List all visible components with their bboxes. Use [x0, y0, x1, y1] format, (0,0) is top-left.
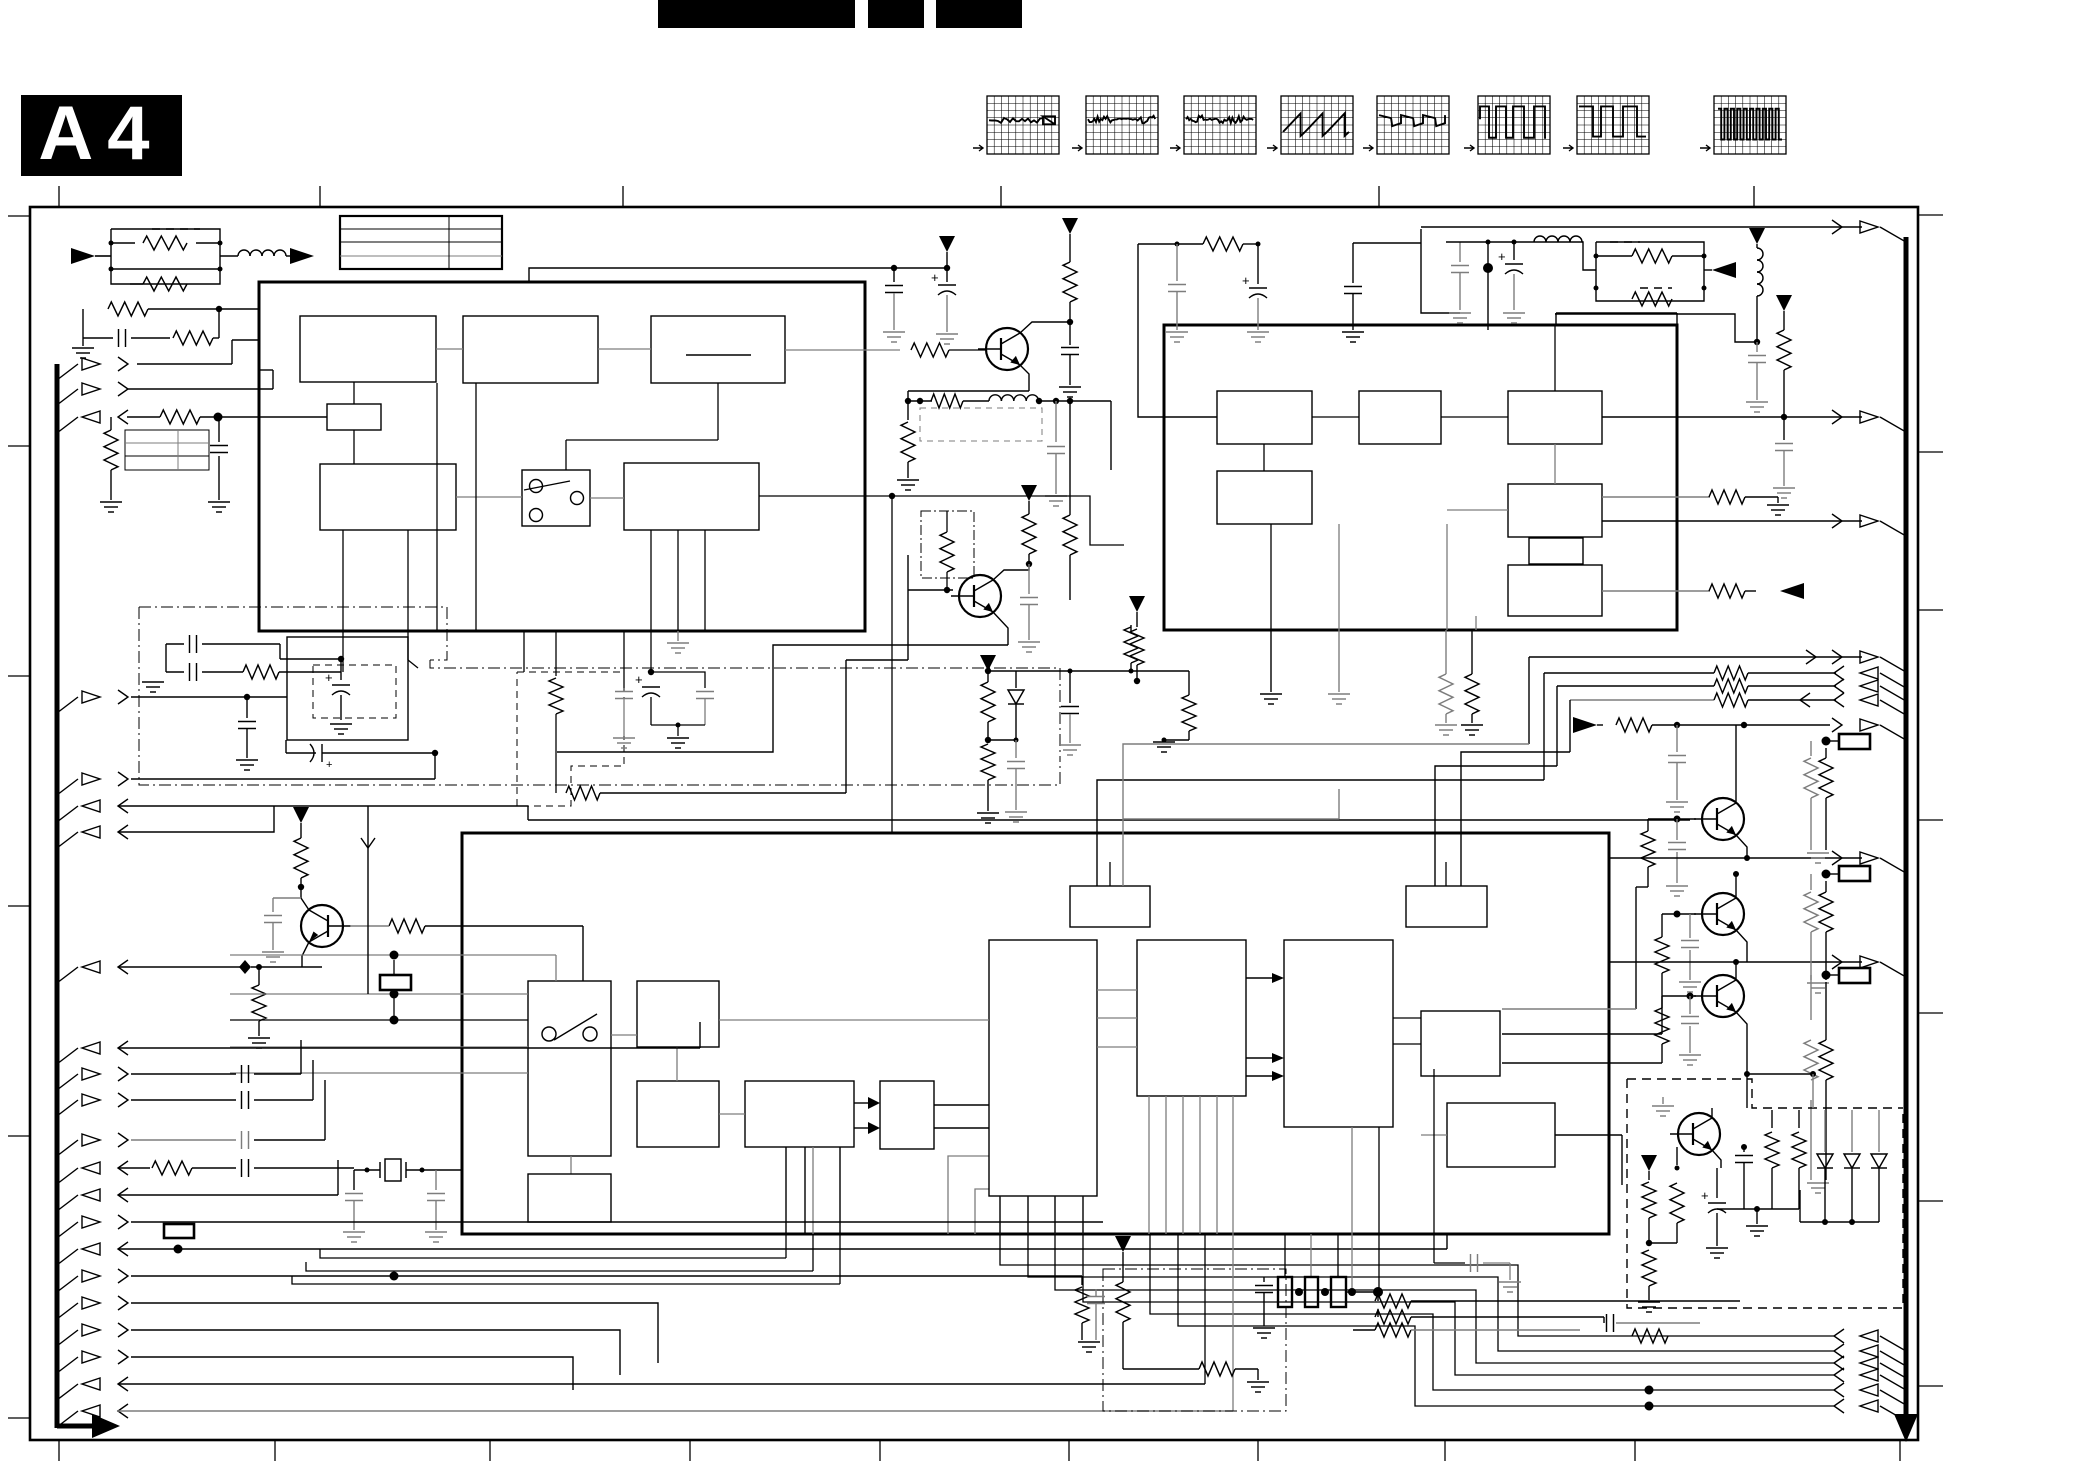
resistor R32 [555, 631, 557, 676]
U1 inner block 4 [320, 464, 456, 530]
resistor R43 [1081, 1276, 1083, 1285]
resistor R52 [1602, 496, 1710, 498]
oscilloscope waveform thumbnail 7 [1577, 96, 1649, 154]
cap C36 [623, 631, 625, 688]
ground G7 [897, 479, 919, 481]
wire 1488 down [1487, 242, 1489, 268]
transistor Q1 [986, 328, 1028, 370]
dashed reservoir box [313, 665, 396, 718]
resistor R16 [1130, 625, 1132, 631]
junction under Q7 [1754, 1206, 1760, 1212]
U3 inner block b36 [1284, 940, 1393, 1127]
ground G61 [1666, 801, 1688, 803]
diode D2 [1851, 1110, 1853, 1152]
U3 pin drop 1233 [1232, 1234, 1234, 1411]
wire conn K1 [393, 960, 395, 975]
row 1411 wire [118, 1410, 1233, 1412]
dash-dot box bottom [1103, 1269, 1286, 1411]
oscilloscope waveform thumbnail 1 [987, 96, 1059, 154]
row 1222 wire [131, 1221, 1103, 1223]
ground G16 [248, 1037, 270, 1039]
diode D4 [1015, 671, 1017, 688]
ground G32 [1638, 1301, 1660, 1303]
row 1168 wire [118, 1167, 150, 1169]
ground G36 [1342, 331, 1364, 333]
wire U1 to Q1 base [785, 349, 900, 351]
connector K2 [1839, 734, 1870, 749]
cap CR3 [1087, 1296, 1105, 1298]
cap C35 electrolytic horiz [286, 752, 316, 754]
U3 left pin rows [230, 954, 556, 956]
U3 top sub-block 2 [1406, 886, 1487, 927]
cap CB1 [1433, 1069, 1435, 1263]
Q5 emitter wire [1736, 930, 1747, 962]
bundle verticals [1543, 673, 1545, 780]
cap C16 electrolytic [1257, 244, 1259, 284]
transistor Q6 [1702, 975, 1744, 1017]
ground G33 [1706, 1247, 1728, 1249]
right signal bus bar [1904, 237, 1909, 1426]
diode common wire [1800, 1221, 1879, 1223]
wire Q3 to U3 [389, 919, 425, 933]
cap C54 [1783, 417, 1785, 440]
cap CR1 [1263, 1277, 1265, 1282]
row 1330 wire [131, 1330, 620, 1375]
ground G31 [1652, 1105, 1674, 1107]
diode D1 [1824, 1110, 1826, 1152]
row 858 wire [1609, 857, 1862, 859]
wire x908 down [907, 555, 909, 660]
cap CR2 [1606, 1314, 1608, 1332]
resistor R31 [243, 665, 279, 679]
Q2 collector [993, 564, 1029, 580]
wire 286 up [285, 740, 287, 753]
Q6 collector wire [1735, 962, 1737, 980]
U3 inner block b33 [745, 1081, 854, 1147]
ground G10 [677, 631, 679, 641]
svg-text:+: + [931, 270, 939, 285]
resistor R73 [1676, 1147, 1678, 1165]
U2 internal wires [1312, 416, 1359, 418]
res stack [1375, 1294, 1411, 1308]
row 962 wire [1609, 961, 1862, 963]
bundle row 673 [1544, 672, 1714, 674]
U3 b35 bottom pins [1148, 1096, 1150, 1234]
wire top rail [529, 268, 947, 283]
row 417 right wire [1602, 416, 1862, 418]
oscilloscope waveform thumbnail 8 [1714, 96, 1786, 154]
border reference tick marks [58, 186, 60, 206]
row 1276 wire [131, 1275, 1082, 1277]
wire x368 down [367, 806, 369, 994]
svg-text:+: + [325, 670, 333, 685]
resistor R19 [1471, 630, 1473, 674]
Q5 base bias chain [1655, 937, 1669, 973]
ground G24 [1503, 312, 1525, 314]
top right rail [1446, 241, 1583, 243]
crystal wires [406, 1169, 462, 1171]
left edge bus breakout arrows [57, 364, 78, 380]
svg-text:A4: A4 [38, 91, 163, 176]
ground G30 [1807, 1182, 1829, 1184]
ground G26 [1773, 487, 1795, 489]
U3 b33 output arrows [854, 1102, 868, 1104]
IC block U2 outline [1164, 325, 1677, 630]
U3 inner block b35 [1137, 940, 1246, 1096]
wire x524-556 [523, 631, 525, 672]
vertical drop x343 [342, 631, 344, 672]
ground G39 [1059, 744, 1081, 746]
ground G25 [1746, 401, 1768, 403]
ground G27 [1767, 504, 1789, 506]
top-right loop wire [1421, 229, 1460, 313]
arrow feed [1573, 717, 1597, 733]
row 779 wire [131, 778, 435, 780]
row 417 wire [127, 416, 160, 418]
ground G12 [330, 723, 352, 725]
cap C71 electrolytic [1716, 1190, 1718, 1198]
left signal bus bar [55, 364, 60, 1428]
bundle row 657 [1529, 656, 1862, 658]
row 227 wire [1421, 226, 1862, 228]
Q1 collector wire [1020, 322, 1070, 333]
arrow after L1 [286, 255, 290, 257]
ground G13 [236, 759, 258, 761]
wire loop right [1555, 314, 1757, 342]
resonator joins [1295, 1288, 1303, 1296]
staircase left bound [320, 1249, 786, 1258]
oscilloscope waveform thumbnail 3 [1184, 96, 1256, 154]
resistor R53 arrow [1602, 590, 1710, 592]
Q2 base wire [908, 589, 953, 591]
U2 inner block A [1217, 391, 1312, 444]
row 1303 wire [131, 1303, 658, 1363]
U3 inner block b34 [880, 1081, 934, 1149]
Q5 collector wire [1735, 874, 1737, 898]
wire input to coil [220, 255, 238, 257]
U3 inner block b32 [637, 1081, 719, 1147]
U2 inner block C [1508, 391, 1602, 444]
U1 internal wires [436, 348, 463, 350]
transistor Q5 [1702, 893, 1744, 935]
cap C61 [1676, 725, 1678, 752]
U3 tall inner block [989, 940, 1097, 1196]
row 1100 wire [131, 1099, 236, 1101]
black title bar 2 [868, 0, 924, 28]
resistor R14 [907, 401, 909, 420]
row 364 wire [137, 363, 232, 365]
U2 small link block [1529, 538, 1583, 564]
U1 small inner block [327, 404, 381, 430]
ground G2 [110, 470, 112, 500]
staircase mid pins 2 [1150, 1234, 1834, 1390]
resonator F3 [1331, 1277, 1346, 1307]
Q1 emitter wire [1020, 365, 1029, 391]
U2 gnd pin 1271 [1270, 630, 1272, 692]
wire row 1074 [1747, 1073, 1813, 1075]
dash-dot region A [139, 607, 447, 660]
bundle row 700 [1570, 699, 1714, 701]
parallel resistor pair box 2 [1596, 242, 1704, 301]
svg-text:+: + [635, 672, 643, 687]
row 1384 wire [118, 1383, 1205, 1385]
capacitor Ct1 [218, 417, 220, 442]
svg-text:+: + [1242, 273, 1250, 288]
Q3 power flag [293, 807, 309, 823]
power flag P3 [1115, 1236, 1131, 1252]
ground G1 [82, 338, 84, 346]
ground G37 [977, 812, 999, 814]
vertical drop x408 [407, 631, 409, 660]
wire L3 down [1756, 296, 1758, 342]
resistor R15 [1138, 243, 1203, 245]
power col x1137 [1129, 596, 1145, 612]
cap C53 [1756, 342, 1758, 352]
row 1074 wire [131, 1073, 236, 1075]
wire to T2 a [1435, 766, 1557, 886]
Q3 collector wire [301, 887, 309, 910]
row 1195 wire [118, 1194, 338, 1196]
ground G35 [1247, 331, 1269, 333]
resistor R35 [258, 967, 260, 985]
U3 switch contacts [542, 1027, 556, 1041]
U3 top sub-block 1 [1070, 886, 1150, 927]
ground G9 [1018, 641, 1040, 643]
ground G23 [1449, 312, 1471, 314]
ground G21 [1078, 1341, 1100, 1343]
resistor R61 [1616, 718, 1652, 732]
capacitor C12 electrolytic [946, 268, 948, 282]
U3 internal wires [611, 1034, 637, 1036]
U3 switch box [528, 981, 611, 1156]
right edge bus breakout arrows [1880, 227, 1906, 242]
black title bar 3 [936, 0, 1022, 28]
Q7 base wire [1663, 1090, 1680, 1120]
Q6 base wire [1662, 995, 1696, 997]
Q6 emitter wire [1736, 1012, 1747, 1074]
power flag P1 [939, 236, 955, 252]
resistor R42 [1199, 1362, 1235, 1376]
cap C72 [1743, 1147, 1745, 1152]
ground G6 [1059, 386, 1081, 388]
U3 tall box bottom pins [999, 1196, 1001, 1234]
ground G18 [425, 1231, 447, 1233]
U1 inner block 2 [463, 316, 598, 383]
Q4 emitter wire [1736, 835, 1747, 858]
diode D3 [1878, 1110, 1880, 1152]
power rail column x1070 [1062, 218, 1078, 234]
row 874 link [1609, 873, 1736, 875]
Q2 emitter wire [993, 612, 1008, 645]
cap C33 electrolytic [340, 659, 342, 680]
R network top-left [82, 309, 84, 338]
ground G41 [1435, 724, 1457, 726]
row 1357 wire [131, 1357, 573, 1390]
cap C15 [1176, 244, 1178, 281]
U2 inner block E [1508, 484, 1602, 537]
solid box around reservoir [287, 637, 408, 740]
dashed box lamp driver [1627, 1079, 1903, 1108]
wire long 819 [1123, 818, 1339, 820]
resistor pair RK3 [1810, 874, 1812, 890]
cap C42 [1069, 671, 1071, 703]
U1 switch box [522, 470, 590, 526]
wire x1111 down [1110, 401, 1112, 470]
arrow left K [1704, 269, 1712, 271]
connector K1 [380, 975, 411, 990]
wire U1 out to Q2 region [891, 496, 893, 833]
resonator wires up [1284, 1234, 1286, 1277]
reservoir loop right [650, 631, 652, 672]
IC block U1 outline [259, 282, 865, 631]
Q3 emitter wire [302, 942, 309, 967]
ground G4 [883, 331, 905, 333]
row 521 right wire [1602, 520, 1862, 522]
inductor L1 [238, 250, 250, 256]
U1 inner block 1 [300, 316, 436, 382]
row 389 wire [127, 388, 273, 390]
parallel resistor pair box [111, 229, 220, 284]
ground G14 [613, 737, 635, 739]
cap C14 [1055, 401, 1057, 442]
wire C31 to box [279, 644, 281, 659]
oscilloscope waveform thumbnail 2 [1086, 96, 1158, 154]
oscilloscope waveform thumbnail 4 [1281, 96, 1353, 154]
cap C32 [189, 663, 191, 681]
wire top right corner [1556, 312, 1677, 314]
black title bar 1 [658, 0, 855, 28]
input arrow [71, 248, 95, 264]
Q5 base wire [1662, 913, 1696, 915]
svg-text:+: + [326, 759, 332, 771]
row 697 wire [131, 696, 247, 698]
U3 b36 input arrows [1246, 977, 1272, 979]
ground G28 [1807, 852, 1829, 854]
cap C41 [1015, 740, 1017, 758]
gray drop wires [1812, 1074, 1814, 1108]
crystal X1 [385, 1159, 401, 1181]
U2 inner block F [1508, 565, 1602, 616]
wire L2 to resnet [1582, 242, 1596, 270]
power flag P2 [1021, 485, 1037, 501]
ground G34 [1166, 331, 1188, 333]
row 1249 wire [118, 1248, 1447, 1250]
U2 inner block D [1217, 471, 1312, 524]
wire to T2 b [1461, 752, 1570, 886]
emitter filter row [907, 391, 909, 401]
resistor Rt1 [110, 417, 112, 424]
resistor R34 [294, 838, 308, 878]
resistor pair RK2 [1811, 740, 1826, 742]
wire to T1 b [1123, 744, 1529, 886]
bundle row 686 [1557, 685, 1714, 687]
resistor R74 [1771, 1110, 1773, 1128]
inductor L2 [1534, 236, 1546, 242]
resistor pair RK4 [1810, 975, 1812, 1020]
row 832 wire [118, 806, 274, 832]
IC block U3 outline [462, 833, 1609, 1234]
ground G38 [1005, 811, 1027, 813]
power flag P6 [1641, 1155, 1657, 1171]
right rows resistor [1632, 1329, 1668, 1343]
Q5 base cap [1689, 914, 1691, 938]
oscilloscope waveform thumbnail 6 [1478, 96, 1550, 154]
U3 inner block b37 [1421, 1011, 1500, 1076]
row 1140 wire [131, 1139, 236, 1141]
row 806 wire [118, 805, 528, 807]
cap C21 [1028, 564, 1030, 594]
ground G11 [153, 671, 166, 673]
ground G42 [1461, 724, 1483, 726]
cap CX1 [345, 1193, 363, 1195]
cap C34 [246, 697, 248, 718]
svg-text:+: + [1498, 249, 1506, 264]
oscilloscope waveform thumbnail 5 [1377, 96, 1449, 154]
U3 inner block b31 [637, 981, 719, 1047]
gap rail 671 [988, 670, 1131, 672]
resistor R51 [1777, 330, 1791, 370]
cap C52 electrolytic [1513, 242, 1515, 260]
row 1048 wire [118, 1047, 700, 1049]
ground G40 [1153, 741, 1175, 743]
U3 pin drops b33 [785, 1234, 787, 1258]
junction dots rail [891, 265, 897, 271]
staircase mid pins [1000, 1196, 1834, 1336]
loop R17 [1131, 670, 1189, 672]
U3 b33 inner pins [785, 1147, 787, 1234]
connector K5 [164, 1224, 194, 1238]
page label A4 block [21, 95, 182, 176]
resistor R22 [1022, 514, 1036, 554]
transistor Q4 [1702, 798, 1744, 840]
U3 tall box left elbows [948, 1156, 989, 1234]
U1 inner block 5 [624, 463, 759, 530]
cap C17 [1352, 243, 1354, 283]
Q4 base bias chain [1641, 831, 1655, 867]
resistor R23 [1069, 401, 1071, 515]
Q4 collector wire [1735, 725, 1737, 803]
U3 b38 out wire [1555, 1134, 1622, 1136]
U2 inner block B [1359, 391, 1441, 444]
transistor Q3 [301, 905, 343, 947]
resistor R75 [1798, 1110, 1800, 1128]
cap C31 [173, 643, 193, 645]
svg-text:+: + [1701, 1188, 1709, 1203]
ground G29 [1807, 982, 1829, 984]
dashed switch box mid [517, 672, 624, 806]
inductor L3 [1757, 248, 1763, 260]
U3 bottom sub-block [528, 1174, 611, 1222]
U3 b34 output wires [934, 1104, 989, 1106]
power flag P5 [1776, 295, 1792, 311]
ground G19 [1253, 1327, 1275, 1329]
resonator F1 [1278, 1277, 1292, 1307]
U3 inner block b38 [1447, 1103, 1555, 1167]
ground G8 [1045, 495, 1067, 497]
row 967 wire [118, 966, 245, 968]
Q6 base cap [1689, 996, 1691, 1014]
U2 top feed wire [1138, 244, 1217, 417]
cap C13 [1061, 347, 1079, 349]
resistor R33 [566, 786, 600, 800]
transistor Q2 [959, 575, 1001, 617]
outer schematic border frame [30, 207, 1918, 1440]
transistor Q7 [1678, 1113, 1720, 1155]
wire feedback long [557, 645, 908, 752]
U3 pin drop 1205 [1204, 1234, 1206, 1384]
ground G17 [343, 1231, 365, 1233]
resistor R72 [1642, 1250, 1656, 1286]
